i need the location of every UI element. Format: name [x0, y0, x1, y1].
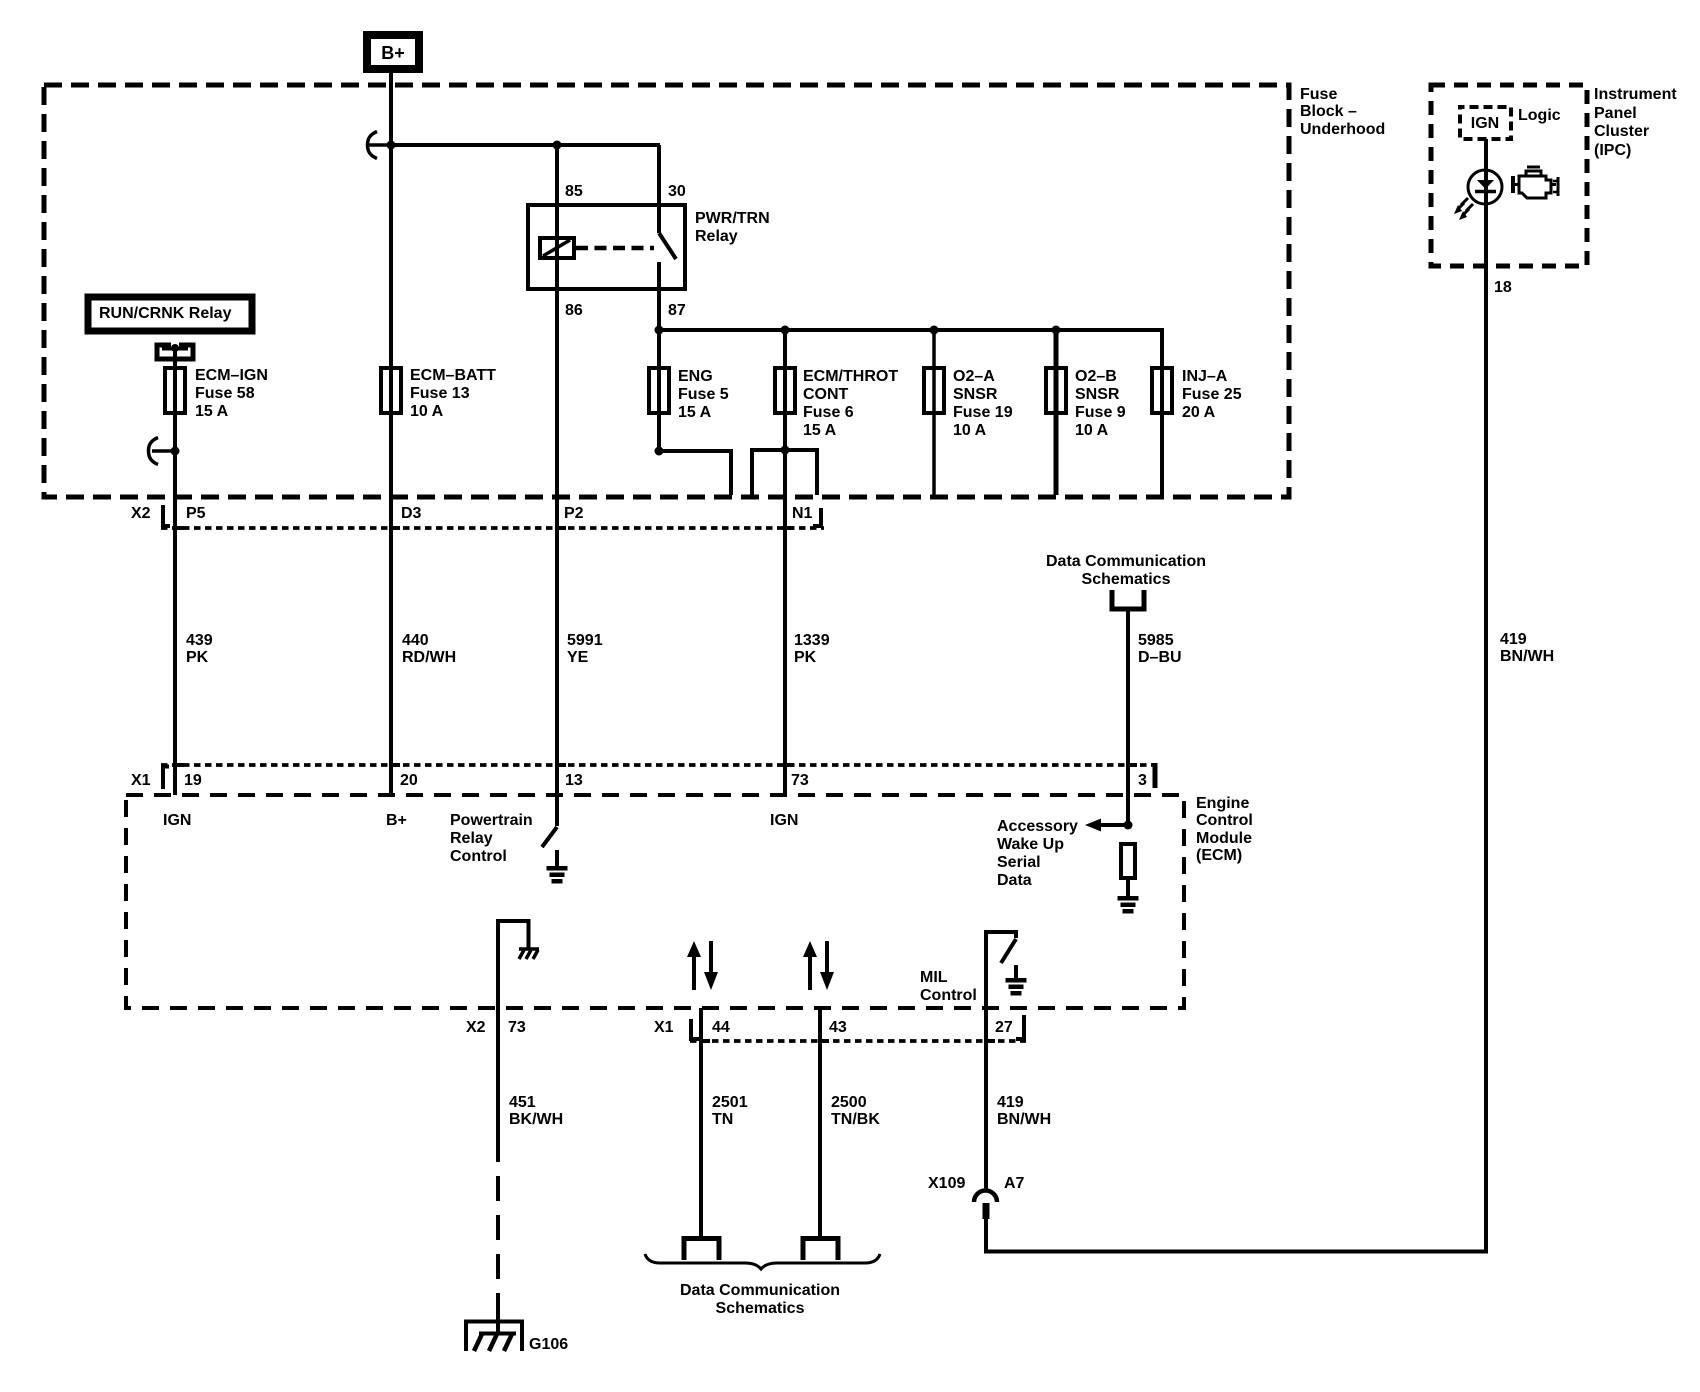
off-page connector bracket — [1112, 590, 1144, 609]
svg-text:CONT: CONT — [803, 386, 849, 403]
svg-text:439: 439 — [186, 632, 213, 649]
svg-text:TN: TN — [712, 1111, 733, 1128]
svg-text:13: 13 — [565, 772, 583, 789]
wire 451 BK/WH solid part — [496, 1008, 500, 1162]
wire pin 87 to fuse bus — [657, 262, 661, 330]
svg-text:IGN: IGN — [770, 812, 798, 829]
serial data arrows pair 2 — [803, 941, 834, 990]
wire ENG fuse output jog — [659, 451, 731, 495]
Fuse Block - Underhood dashed box — [44, 85, 1289, 497]
connector X2 row dotted line — [161, 526, 824, 530]
label Engine Control Module (ECM) — [1196, 795, 1253, 864]
serial data arrows pair 1 — [687, 941, 718, 990]
Instrument Panel Cluster dashed box — [1431, 85, 1587, 266]
svg-text:G106: G106 — [529, 1336, 568, 1353]
pin ticks X1 row — [175, 763, 184, 767]
fuse INJ-A Fuse 25 — [1152, 368, 1242, 421]
svg-text:X2: X2 — [466, 1019, 486, 1036]
connector X1 row dotted line — [161, 763, 1158, 767]
label Data Communication Schematics top — [1046, 553, 1206, 588]
wire label 440 RD/WH — [402, 632, 456, 666]
svg-text:15 A: 15 A — [803, 422, 837, 439]
svg-text:YE: YE — [567, 649, 589, 666]
svg-text:440: 440 — [402, 632, 429, 649]
svg-text:Fuse 19: Fuse 19 — [953, 404, 1013, 421]
svg-text:P2: P2 — [564, 505, 584, 522]
wire label 451 BK/WH — [509, 1094, 563, 1128]
svg-text:BN/WH: BN/WH — [997, 1111, 1051, 1128]
svg-text:O2–A: O2–A — [953, 368, 995, 385]
Engine Control Module dashed box — [126, 795, 1184, 1008]
svg-text:Control: Control — [450, 848, 507, 865]
relay actuation dashed link — [576, 246, 654, 251]
svg-text:73: 73 — [508, 1019, 526, 1036]
svg-text:X109: X109 — [928, 1175, 965, 1192]
wire label 419 BN/WH bottom — [997, 1094, 1051, 1128]
connector X109 A7 inline — [928, 1175, 1025, 1219]
wire O2-B output stub — [1054, 330, 1059, 495]
svg-text:A7: A7 — [1004, 1175, 1025, 1192]
accessory wake up arrow — [1085, 819, 1128, 832]
ground internal accessory — [1118, 878, 1139, 914]
label Instrument Panel Cluster (IPC) — [1594, 86, 1677, 159]
svg-text:BK/WH: BK/WH — [509, 1111, 563, 1128]
svg-text:X2: X2 — [131, 505, 151, 522]
wire 419 BN/WH from pin 27 — [984, 1008, 988, 1191]
svg-text:15 A: 15 A — [195, 403, 229, 420]
wire INJ-A output stub — [1160, 330, 1164, 495]
wire 451 BK/WH dashed part — [496, 1162, 500, 1312]
node junction at B+ branch — [387, 141, 396, 150]
svg-text:2501: 2501 — [712, 1094, 748, 1111]
svg-text:27: 27 — [995, 1019, 1013, 1036]
wire label 2500 TN/BK — [831, 1094, 880, 1128]
pin function label Powertrain Relay Control — [450, 812, 533, 865]
wire 5985 D-BU — [1126, 609, 1130, 825]
wire 2501 TN — [699, 1008, 703, 1236]
svg-text:Data Communication: Data Communication — [1046, 553, 1206, 570]
node junction bus at ENG — [655, 326, 664, 335]
label PWR/TRN Relay — [695, 210, 770, 245]
svg-text:19: 19 — [184, 772, 202, 789]
svg-text:85: 85 — [565, 183, 583, 200]
relay coil K1 — [540, 238, 574, 258]
svg-text:10 A: 10 A — [410, 403, 444, 420]
svg-text:2500: 2500 — [831, 1094, 867, 1111]
connector X1 bottom left bracket — [691, 1019, 699, 1039]
powertrain relay control switch — [542, 795, 557, 847]
fuse O2-A SNSR Fuse 19 — [924, 368, 1013, 439]
svg-text:X1: X1 — [654, 1019, 674, 1036]
svg-text:RUN/CRNK Relay: RUN/CRNK Relay — [99, 305, 232, 322]
svg-text:N1: N1 — [792, 505, 813, 522]
node junction accessory — [1124, 821, 1133, 830]
node junction bus at O2-A — [930, 326, 939, 335]
svg-text:Fuse 9: Fuse 9 — [1075, 404, 1126, 421]
wire label 5985 D-BU — [1138, 632, 1182, 666]
svg-text:Engine: Engine — [1196, 795, 1249, 812]
svg-text:419: 419 — [997, 1094, 1024, 1111]
svg-text:Underhood: Underhood — [1300, 121, 1385, 138]
check engine icon — [1513, 167, 1558, 198]
svg-text:TN/BK: TN/BK — [831, 1111, 880, 1128]
svg-text:87: 87 — [668, 302, 686, 319]
node junction ENG output — [655, 447, 664, 456]
wire 1339 feed through N1 — [783, 330, 787, 795]
connector X1 left bracket — [163, 767, 169, 790]
svg-text:BN/WH: BN/WH — [1500, 648, 1554, 665]
label Data Communication Schematics bottom — [680, 1282, 840, 1317]
relay switch blade — [659, 233, 676, 259]
wire label 5991 YE — [567, 632, 603, 666]
svg-text:Panel: Panel — [1594, 105, 1637, 122]
svg-text:Accessory: Accessory — [997, 818, 1078, 835]
LED indicator lamp — [1454, 170, 1502, 220]
connector X2 right bracket at N1 — [813, 508, 821, 526]
fuse ECM-IGN Fuse 58 — [165, 367, 268, 420]
wire IGN to LED — [1484, 139, 1488, 266]
wire horizontal branch to relay — [391, 143, 660, 147]
svg-text:MIL: MIL — [920, 969, 948, 986]
wire label 2501 TN — [712, 1094, 748, 1128]
svg-text:X1: X1 — [131, 772, 151, 789]
wire label 419 BN/WH right — [1500, 631, 1554, 665]
svg-text:Relay: Relay — [695, 228, 738, 245]
wire ENG fuse drop — [657, 330, 661, 451]
svg-text:ECM/THROT: ECM/THROT — [803, 368, 898, 385]
svg-text:D3: D3 — [401, 505, 422, 522]
RUN/CRNK Relay source box — [88, 297, 252, 331]
svg-text:3: 3 — [1138, 772, 1147, 789]
terminal staple 2501 — [684, 1239, 719, 1261]
svg-text:P5: P5 — [186, 505, 206, 522]
svg-text:Wake Up: Wake Up — [997, 836, 1064, 853]
wire 5991 from relay 86 down — [555, 258, 559, 795]
ground internal MIL — [1006, 965, 1027, 996]
svg-text:5985: 5985 — [1138, 632, 1174, 649]
svg-text:(IPC): (IPC) — [1594, 142, 1631, 159]
svg-text:Data: Data — [997, 872, 1032, 889]
svg-text:ECM–BATT: ECM–BATT — [410, 367, 496, 384]
wire label 1339 PK — [794, 632, 830, 666]
svg-text:SNSR: SNSR — [1075, 386, 1120, 403]
svg-text:10 A: 10 A — [1075, 422, 1109, 439]
svg-text:Control: Control — [1196, 812, 1253, 829]
B+ power symbol box — [367, 35, 419, 69]
svg-text:451: 451 — [509, 1094, 536, 1111]
wire B+ vertical feed — [389, 69, 393, 795]
pin ticks bottom row — [701, 1039, 710, 1043]
wire label 439 PK — [186, 632, 213, 666]
node junction bus at ECM/THROT — [781, 326, 790, 335]
svg-text:PK: PK — [794, 649, 817, 666]
svg-text:Schematics: Schematics — [1082, 571, 1171, 588]
connector X1 right bracket — [1153, 763, 1158, 788]
label MIL Control — [920, 969, 977, 1004]
wire pin 85 — [555, 145, 559, 258]
svg-text:(ECM): (ECM) — [1196, 847, 1242, 864]
node junction ECM/THROT output — [781, 446, 790, 455]
wire 419 BN/WH to IPC — [986, 266, 1486, 1252]
internal ground hook X2-73 — [498, 921, 539, 1008]
fuse ECM-BATT Fuse 13 — [381, 367, 496, 420]
svg-text:1339: 1339 — [794, 632, 830, 649]
brace for data communication — [645, 1254, 880, 1269]
svg-text:419: 419 — [1500, 631, 1527, 648]
terminal staple 2500 — [803, 1239, 838, 1261]
ground internal powertrain — [547, 850, 568, 884]
svg-text:5991: 5991 — [567, 632, 603, 649]
splice clip at B+ branch — [368, 132, 390, 159]
svg-text:RD/WH: RD/WH — [402, 649, 456, 666]
svg-text:20: 20 — [400, 772, 418, 789]
PWR/TRN Relay box U1 — [528, 205, 685, 289]
svg-text:Instrument: Instrument — [1594, 86, 1677, 103]
svg-text:Powertrain: Powertrain — [450, 812, 533, 829]
connector bottom right bracket — [1016, 1015, 1024, 1039]
fuse ENG Fuse 5 — [649, 368, 729, 421]
MIL control switch — [986, 932, 1016, 1008]
svg-text:D–BU: D–BU — [1138, 649, 1182, 666]
svg-text:O2–B: O2–B — [1075, 368, 1117, 385]
node junction bus at O2-B — [1052, 326, 1061, 335]
fuse O2-B SNSR Fuse 9 — [1046, 368, 1126, 439]
svg-text:IGN: IGN — [163, 812, 191, 829]
svg-text:Fuse 5: Fuse 5 — [678, 386, 729, 403]
svg-text:18: 18 — [1494, 279, 1512, 296]
svg-text:PK: PK — [186, 649, 209, 666]
svg-text:20 A: 20 A — [1182, 404, 1216, 421]
svg-text:INJ–A: INJ–A — [1182, 368, 1228, 385]
svg-text:15 A: 15 A — [678, 404, 712, 421]
wire 2500 TN/BK — [818, 1008, 822, 1236]
label Accessory Wake Up Serial Data — [997, 818, 1078, 889]
svg-text:Fuse: Fuse — [1300, 86, 1337, 103]
svg-text:Logic: Logic — [1518, 107, 1561, 124]
svg-text:ECM–IGN: ECM–IGN — [195, 367, 268, 384]
svg-text:Data Communication: Data Communication — [680, 1282, 840, 1299]
svg-text:Fuse 58: Fuse 58 — [195, 385, 255, 402]
wire fuse bus horizontal — [659, 330, 1162, 368]
svg-text:Serial: Serial — [997, 854, 1041, 871]
RUN/CRNK relay output terminal cup — [157, 344, 193, 359]
svg-text:Control: Control — [920, 987, 977, 1004]
svg-text:86: 86 — [565, 302, 583, 319]
wire ECM/THROT output staple — [752, 450, 817, 495]
fuse ECM/THROT CONT Fuse 6 — [775, 368, 898, 439]
svg-text:Fuse 13: Fuse 13 — [410, 385, 470, 402]
svg-text:B+: B+ — [381, 43, 405, 63]
splice clip below fuse 58 — [149, 438, 180, 465]
svg-text:ENG: ENG — [678, 368, 713, 385]
ground G106 — [464, 1310, 568, 1353]
wire ECM-IGN feed — [173, 348, 177, 795]
wire pin 30 — [657, 145, 661, 233]
svg-text:44: 44 — [712, 1019, 730, 1036]
svg-text:SNSR: SNSR — [953, 386, 998, 403]
svg-text:10 A: 10 A — [953, 422, 987, 439]
label Fuse Block - Underhood — [1300, 86, 1385, 138]
IGN feed dashed box — [1460, 107, 1511, 139]
svg-text:PWR/TRN: PWR/TRN — [695, 210, 770, 227]
svg-text:Schematics: Schematics — [716, 1300, 805, 1317]
svg-text:Fuse 25: Fuse 25 — [1182, 386, 1242, 403]
connector bottom row dotted line — [690, 1039, 1026, 1043]
svg-text:73: 73 — [791, 772, 809, 789]
svg-text:30: 30 — [668, 183, 686, 200]
svg-text:IGN: IGN — [1471, 115, 1499, 132]
pin ticks X2 row — [175, 526, 184, 530]
svg-text:Cluster: Cluster — [1594, 123, 1649, 140]
connector X2 left bracket — [163, 505, 170, 526]
node junction pin85 branch — [553, 141, 562, 150]
resistor R1 — [1121, 844, 1135, 878]
svg-text:Fuse 6: Fuse 6 — [803, 404, 854, 421]
wire O2-A output stub — [932, 330, 936, 495]
svg-text:Block –: Block – — [1300, 103, 1357, 120]
svg-text:43: 43 — [829, 1019, 847, 1036]
svg-text:Module: Module — [1196, 830, 1252, 847]
svg-text:B+: B+ — [386, 812, 407, 829]
svg-text:Relay: Relay — [450, 830, 493, 847]
